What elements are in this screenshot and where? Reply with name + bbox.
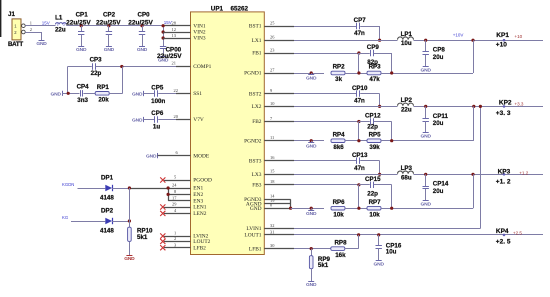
svg-text:3k: 3k <box>335 76 342 83</box>
svg-text:LX1: LX1 <box>252 38 262 44</box>
svg-text:+2.5: +2.5 <box>513 230 523 235</box>
svg-text:CP6: CP6 <box>151 110 164 117</box>
svg-text:LP3: LP3 <box>401 165 413 172</box>
svg-text:68u: 68u <box>401 174 412 181</box>
svg-text:CP13: CP13 <box>352 152 368 159</box>
svg-text:CP9: CP9 <box>367 44 380 51</box>
svg-text:20u: 20u <box>433 188 444 195</box>
svg-text:DP2: DP2 <box>101 207 114 214</box>
svg-text:39k: 39k <box>369 144 380 151</box>
svg-text:V7V: V7V <box>193 117 204 123</box>
svg-text:12: 12 <box>172 27 176 32</box>
svg-text:RP6: RP6 <box>333 199 346 206</box>
svg-text:10u: 10u <box>401 40 412 47</box>
svg-text:10k: 10k <box>333 211 344 218</box>
svg-text:LOUT2: LOUT2 <box>193 239 210 245</box>
svg-text:LP1: LP1 <box>401 31 413 38</box>
svg-text:FB3: FB3 <box>252 183 262 189</box>
svg-text:FB2: FB2 <box>252 119 262 125</box>
svg-text:CP7: CP7 <box>354 17 367 24</box>
svg-text:EN1: EN1 <box>193 186 203 192</box>
svg-text:MODE: MODE <box>193 153 210 159</box>
svg-text:8k6: 8k6 <box>333 144 344 151</box>
svg-text:100n: 100n <box>151 98 165 105</box>
svg-text:RP5: RP5 <box>369 131 382 138</box>
svg-text:GND: GND <box>250 206 262 212</box>
svg-text:22u/25V: 22u/25V <box>128 19 153 26</box>
svg-text:FB1: FB1 <box>252 51 262 57</box>
svg-text:20u: 20u <box>433 120 444 127</box>
svg-text:CP1: CP1 <box>76 11 89 18</box>
svg-text:LP2: LP2 <box>401 97 413 104</box>
svg-text:2: 2 <box>30 27 32 32</box>
svg-text:21: 21 <box>172 60 176 65</box>
svg-text:22p: 22p <box>91 70 102 77</box>
svg-text:22p: 22p <box>367 123 378 130</box>
svg-text:EN3: EN3 <box>193 198 203 204</box>
svg-text:LFB1: LFB1 <box>249 246 262 252</box>
svg-text:1u: 1u <box>153 124 160 131</box>
svg-text:LVIN1: LVIN1 <box>246 226 261 232</box>
svg-text:+1. 2: +1. 2 <box>496 178 511 185</box>
svg-text:GND: GND <box>306 143 317 149</box>
svg-text:SS1: SS1 <box>193 91 202 97</box>
svg-text:20u: 20u <box>433 54 444 61</box>
svg-text:L1: L1 <box>55 15 63 22</box>
svg-text:GND: GND <box>132 118 143 124</box>
svg-text:GND: GND <box>124 256 135 262</box>
svg-text:KG: KG <box>62 215 69 220</box>
svg-text:LFB2: LFB2 <box>193 245 206 251</box>
svg-text:1: 1 <box>174 231 176 236</box>
svg-text:15V: 15V <box>42 20 50 25</box>
svg-text:22u: 22u <box>55 26 66 33</box>
svg-text:PGND1: PGND1 <box>244 71 262 77</box>
svg-text:LX2: LX2 <box>252 104 262 110</box>
svg-text:22u/25V: 22u/25V <box>66 19 91 26</box>
svg-text:2: 2 <box>174 236 176 241</box>
svg-text:+1.2: +1.2 <box>519 170 529 175</box>
svg-text:RP3: RP3 <box>369 64 382 71</box>
svg-text:RP8: RP8 <box>334 239 347 246</box>
svg-text:+3.3: +3.3 <box>514 101 524 106</box>
svg-text:GND: GND <box>132 92 143 98</box>
svg-text:32: 32 <box>270 223 274 228</box>
svg-text:CP8: CP8 <box>433 47 446 54</box>
svg-text:4148: 4148 <box>100 227 114 234</box>
svg-text:CP12: CP12 <box>365 113 381 120</box>
svg-text:22u: 22u <box>401 106 412 113</box>
svg-text:RP2: RP2 <box>333 64 346 71</box>
svg-text:4148: 4148 <box>100 195 114 202</box>
svg-text:BST3: BST3 <box>249 158 262 164</box>
svg-text:31: 31 <box>270 229 274 234</box>
svg-text:47n: 47n <box>354 165 365 172</box>
svg-text:EN2: EN2 <box>193 192 203 198</box>
svg-text:GND: GND <box>36 41 47 47</box>
svg-text:5k1: 5k1 <box>318 262 329 269</box>
svg-text:22: 22 <box>174 88 178 93</box>
svg-text:GND: GND <box>306 282 317 288</box>
svg-text:47n: 47n <box>354 98 365 105</box>
svg-text:CP11: CP11 <box>433 113 449 120</box>
svg-text:GND: GND <box>374 262 385 268</box>
svg-text:LOUT1: LOUT1 <box>244 233 261 239</box>
svg-text:LX3: LX3 <box>252 172 262 178</box>
svg-text:47k: 47k <box>369 76 380 83</box>
svg-text:GND: GND <box>421 67 432 73</box>
svg-text:KP1: KP1 <box>496 32 509 39</box>
svg-text:65262: 65262 <box>231 6 249 13</box>
svg-text:CP14: CP14 <box>433 181 449 188</box>
svg-text:+10V: +10V <box>453 32 464 37</box>
svg-text:10k: 10k <box>369 211 380 218</box>
svg-text:KGDN: KGDN <box>62 182 74 187</box>
svg-text:DP1: DP1 <box>101 174 114 181</box>
svg-text:J1: J1 <box>8 11 15 18</box>
svg-text:22u/25V: 22u/25V <box>96 19 121 26</box>
svg-text:LEN2: LEN2 <box>193 211 206 217</box>
svg-text:22p: 22p <box>367 191 378 198</box>
svg-text:CP5: CP5 <box>151 84 164 91</box>
svg-text:CP4: CP4 <box>77 84 90 91</box>
svg-text:RP4: RP4 <box>333 131 346 138</box>
svg-text:22u/25V: 22u/25V <box>157 53 182 60</box>
svg-text:GND: GND <box>421 202 432 208</box>
svg-text:CP10: CP10 <box>352 85 368 92</box>
svg-text:11: 11 <box>270 135 274 140</box>
svg-text:GND: GND <box>51 91 62 97</box>
svg-text:GND: GND <box>146 154 157 160</box>
svg-text:PGND2: PGND2 <box>244 138 262 144</box>
svg-text:KP3: KP3 <box>498 169 511 176</box>
svg-text:GND: GND <box>137 47 148 53</box>
svg-text:GND: GND <box>421 134 432 140</box>
svg-text:GND: GND <box>76 47 87 53</box>
svg-text:47n: 47n <box>354 30 365 37</box>
svg-text:GND: GND <box>104 47 115 53</box>
svg-text:CP2: CP2 <box>103 11 116 18</box>
svg-text:+2. 5: +2. 5 <box>496 238 511 245</box>
svg-text:VIN3: VIN3 <box>193 36 206 42</box>
svg-text:GND: GND <box>306 211 317 217</box>
svg-text:+10: +10 <box>514 34 522 39</box>
svg-text:UP1: UP1 <box>211 6 224 13</box>
svg-text:KP4: KP4 <box>496 228 509 235</box>
svg-text:5k1: 5k1 <box>137 234 148 241</box>
svg-text:PGOOD: PGOOD <box>193 178 212 184</box>
svg-text:20k: 20k <box>98 97 109 104</box>
svg-text:CP0: CP0 <box>138 11 151 18</box>
svg-text:BATT: BATT <box>8 41 23 48</box>
svg-text:3n3: 3n3 <box>77 97 88 104</box>
svg-text:CP3: CP3 <box>90 56 103 63</box>
svg-text:+3. 3: +3. 3 <box>496 110 511 117</box>
svg-text:BST2: BST2 <box>249 91 262 97</box>
svg-text:LEN1: LEN1 <box>193 205 206 211</box>
svg-text:RP7: RP7 <box>369 199 382 206</box>
svg-text:BST1: BST1 <box>249 24 262 30</box>
svg-text:COMP1: COMP1 <box>193 64 211 70</box>
svg-text:KP2: KP2 <box>499 99 512 106</box>
svg-text:10u: 10u <box>386 249 397 256</box>
svg-text:CP15: CP15 <box>365 176 381 183</box>
svg-text:+10: +10 <box>496 42 507 49</box>
svg-text:1: 1 <box>30 21 32 26</box>
svg-text:GND: GND <box>306 76 317 82</box>
svg-text:RP1: RP1 <box>97 84 110 91</box>
svg-text:16k: 16k <box>335 252 346 259</box>
